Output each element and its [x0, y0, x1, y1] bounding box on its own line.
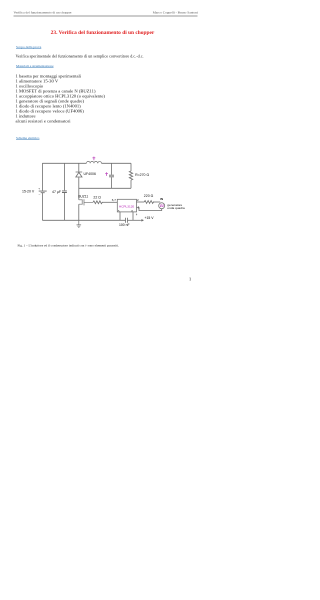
resistor R3 270ohm: [129, 171, 132, 180]
square wave mark inside generator: [160, 205, 164, 207]
wire MOSFET source to ground rail: [78, 204, 80, 220]
wire left rail: [41, 163, 43, 220]
wire resistor to generator: [153, 201, 160, 203]
dagger mark on inductor: [93, 157, 96, 161]
wire capacitor C2 branch bottom: [111, 177, 113, 188]
capacitor C2 plates: [109, 175, 114, 177]
svg-text:22 Ω: 22 Ω: [93, 195, 101, 199]
capacitor C1 plates: [62, 191, 67, 193]
diode D1 UF4006: [76, 172, 83, 177]
resistor R2 220ohm: [144, 201, 153, 204]
wire load resistor top lead: [130, 163, 132, 171]
heading: Scopo della prova: [16, 45, 41, 49]
svg-text:+15 V: +15 V: [145, 216, 155, 220]
page number: [189, 277, 191, 282]
wire gate resistor to optocoupler: [103, 201, 117, 203]
wire pin5 to ground rail: [119, 212, 121, 220]
body line: [16, 54, 144, 59]
+15V supply arrow: [141, 219, 144, 221]
svg-text:R=270 Ω: R=270 Ω: [135, 173, 149, 177]
svg-text:47 µF: 47 µF: [52, 190, 61, 194]
wire pin2 to resistor: [137, 201, 145, 203]
svg-text:100 nF: 100 nF: [119, 223, 130, 227]
wire capacitor C1 branch bottom: [63, 193, 65, 220]
resistor R1 22ohm: [93, 201, 103, 204]
capacitor C3 100nF: [126, 218, 128, 223]
svg-text:+: +: [38, 187, 40, 191]
svg-text:onda quadra: onda quadra: [167, 206, 185, 210]
wire freewheel node to load bottom: [79, 187, 131, 189]
svg-text:UF4006: UF4006: [84, 172, 97, 176]
heading: Schema elettrico: [16, 136, 39, 140]
battery B1: [39, 191, 47, 193]
wire diode branch: [78, 163, 80, 200]
title: [0, 30, 205, 36]
svg-text:6,7: 6,7: [112, 198, 117, 202]
svg-text:15-20 V: 15-20 V: [22, 190, 35, 194]
header right: [153, 11, 198, 15]
op-amp U1 HCPL3120 box: [117, 199, 136, 212]
transistor Q1 BUZ11: [79, 199, 93, 205]
svg-text:BUZ11: BUZ11: [78, 195, 88, 199]
generator G1 square wave: [159, 203, 165, 209]
svg-text:IN: IN: [160, 197, 163, 201]
header left: [14, 11, 72, 15]
ground: [77, 220, 82, 227]
wire top rail right segment: [102, 162, 132, 164]
heading: Materiali e strumentazione: [16, 64, 54, 68]
wire pin8 to supply rail: [132, 212, 134, 220]
dagger mark on capacitor C2: [105, 172, 108, 176]
wire top rail left segment: [42, 162, 86, 164]
header rule: [14, 15, 198, 16]
figure caption: [18, 244, 119, 248]
wire capacitor C2 output branch top: [111, 163, 113, 174]
svg-text:HCPL3120: HCPL3120: [119, 204, 134, 208]
schematic SVG: [0, 0, 212, 300]
svg-text:2: 2: [137, 198, 139, 202]
svg-text:4: 4: [136, 213, 138, 217]
materials list: [16, 74, 105, 124]
svg-text:–: –: [39, 192, 41, 196]
wire bottom rail right of capacitor: [127, 219, 141, 221]
wire capacitor C1 branch top: [63, 163, 65, 190]
wire generator return to pin3: [137, 208, 162, 211]
svg-text:220 Ω: 220 Ω: [144, 194, 154, 198]
inductor L1: [86, 161, 101, 163]
wire load resistor bottom lead: [130, 180, 132, 188]
wire bottom rail left of capacitor: [42, 219, 125, 221]
